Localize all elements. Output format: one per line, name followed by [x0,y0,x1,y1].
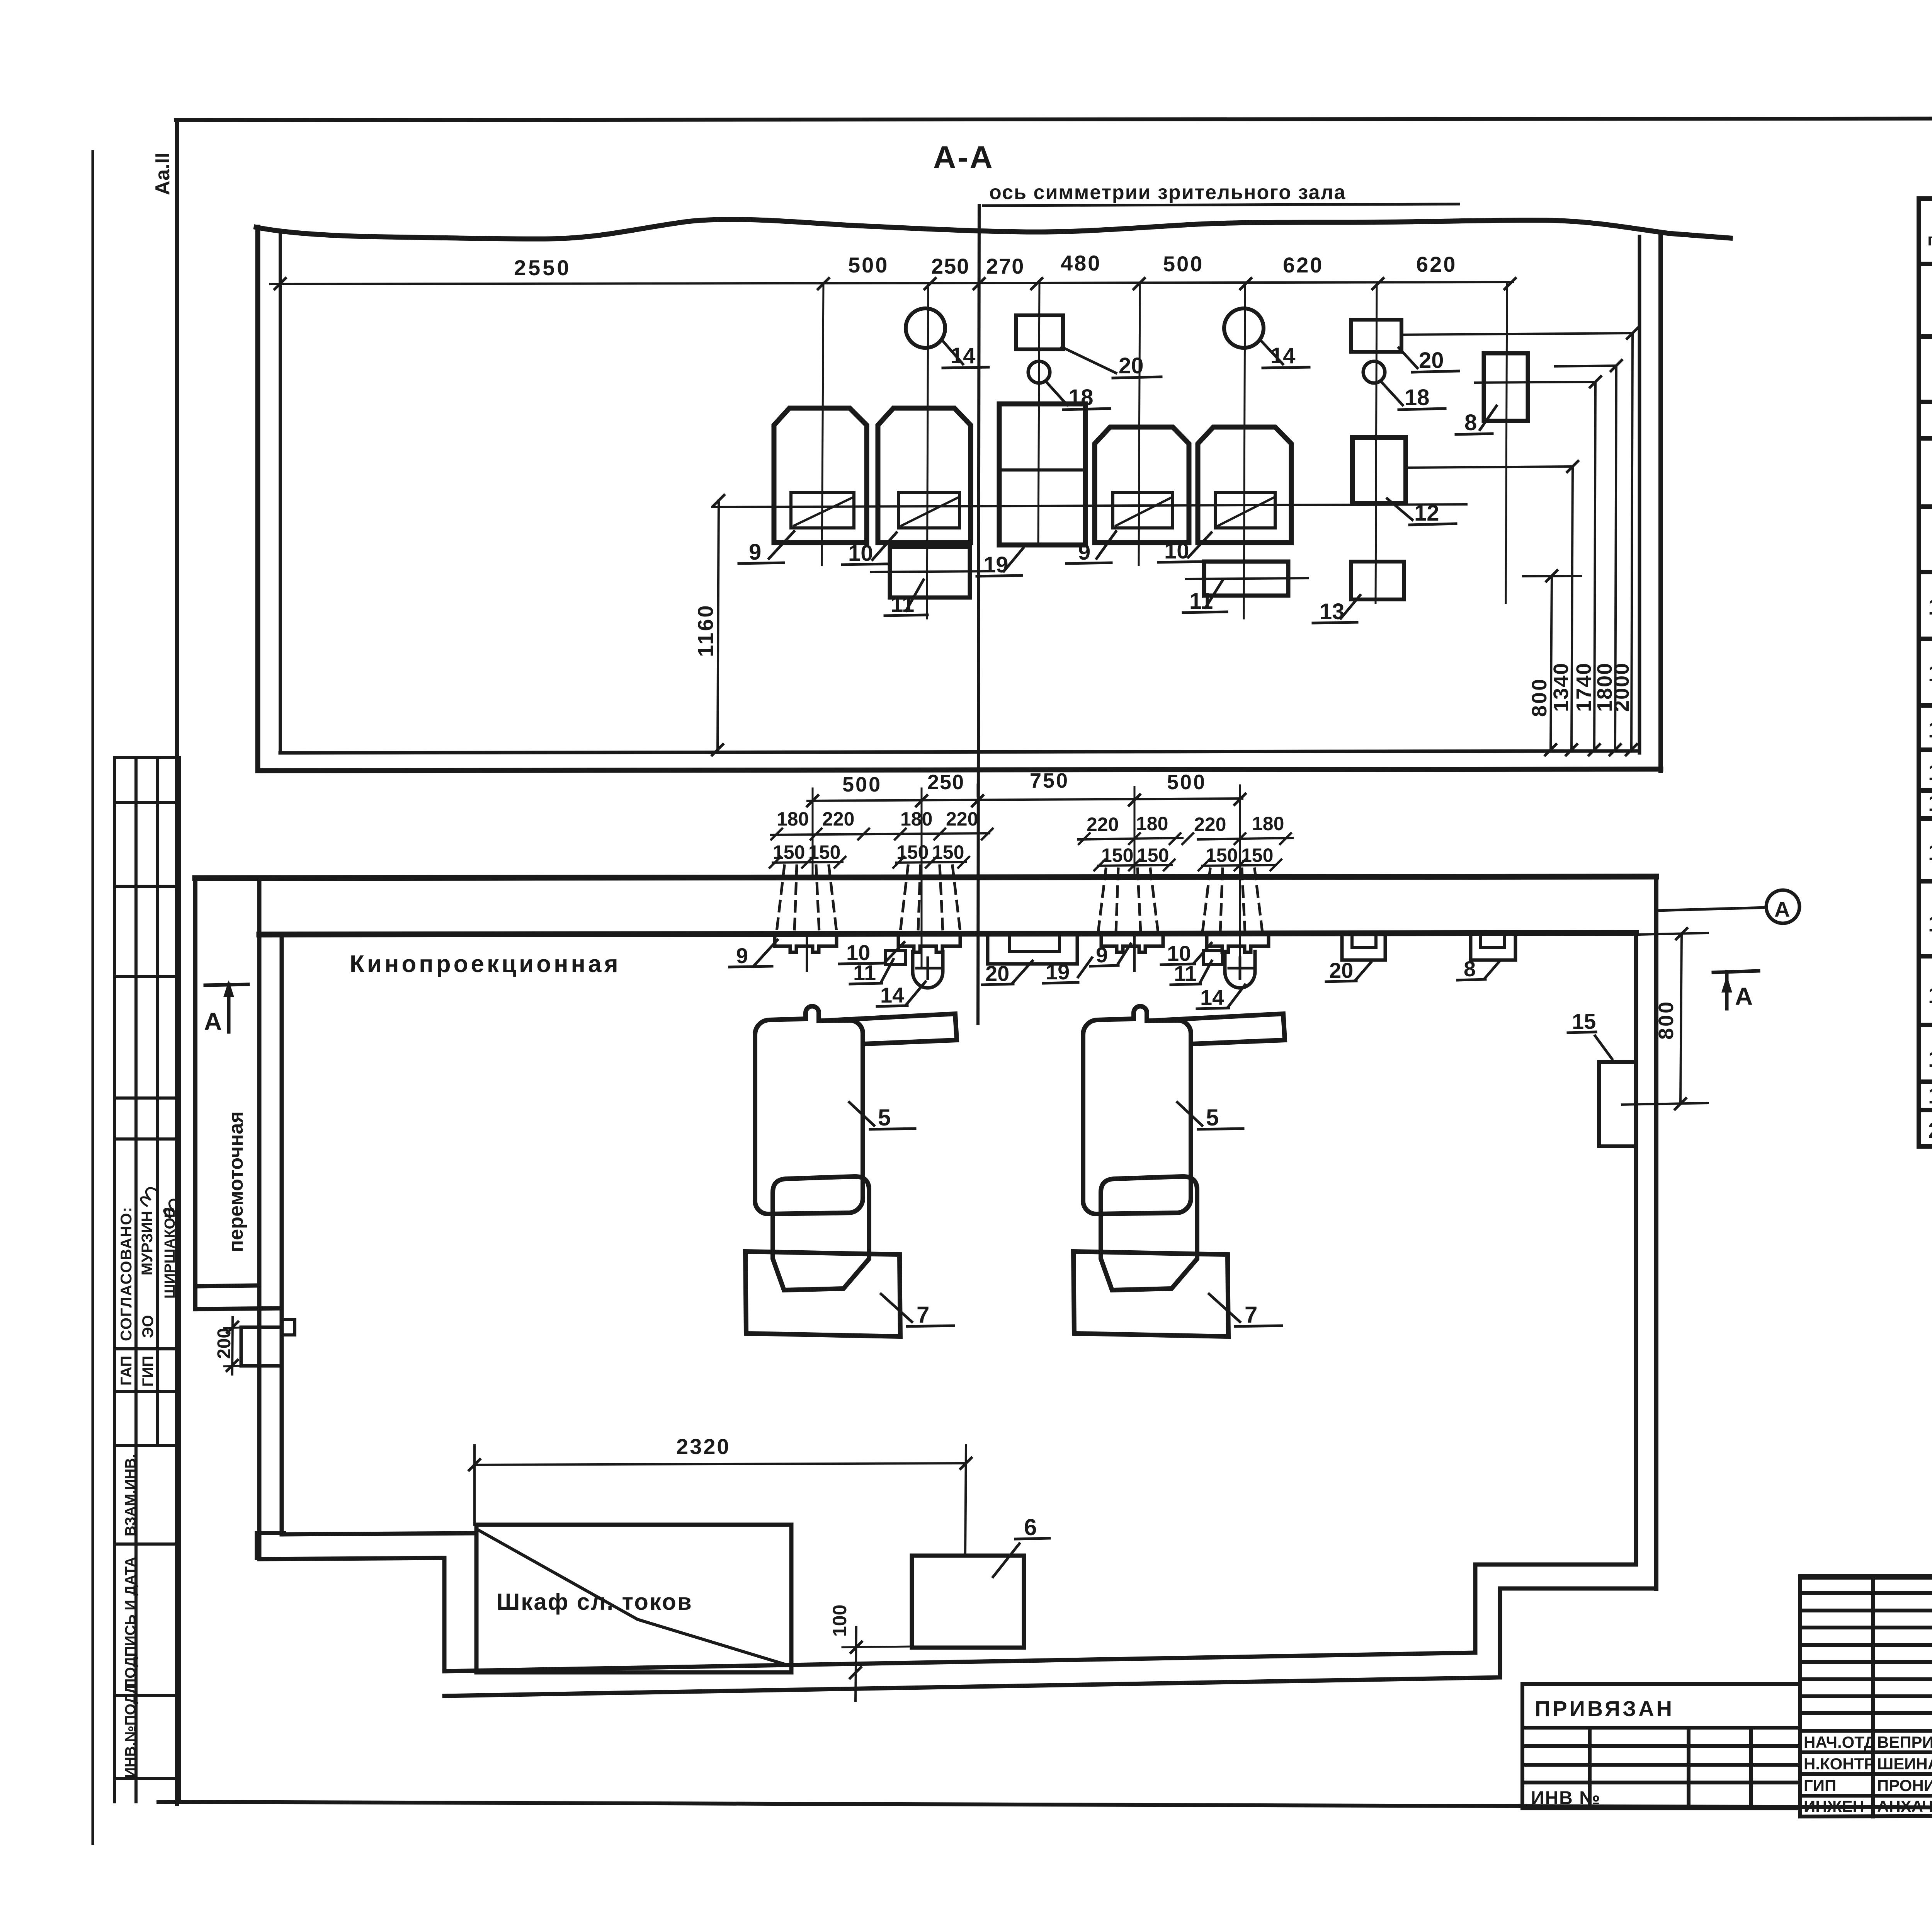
console 11 left centerline [871,571,990,572]
svg-text:ВЗАМ.ИНВ.: ВЗАМ.ИНВ. [122,1454,139,1536]
label 5 (proj2) [1177,1102,1243,1129]
low current cabinet box [476,1525,791,1672]
svg-text:19: 19 [1928,1083,1932,1108]
plan top wall outer [195,877,1656,878]
box 15 [1599,1062,1636,1146]
plan label 19 mid [1043,958,1092,983]
svg-text:220: 220 [946,808,978,830]
svg-text:2550: 2550 [514,255,571,280]
section mark A left: vertical with arrow [227,984,231,1032]
privyazan rows [1522,1744,1800,1748]
svg-text:перемоточная: перемоточная [225,1111,247,1252]
svg-text:250: 250 [931,254,969,278]
svg-text:9: 9 [749,540,761,565]
dashed projection beams window D [1202,869,1262,932]
section box right wall inner [1638,237,1641,753]
dim 200 extension lines [224,1327,255,1328]
svg-text:18: 18 [1928,1047,1932,1072]
svg-text:15: 15 [1928,840,1932,865]
row line r5 [1919,334,1932,339]
projector 1 body [755,1006,863,1214]
svg-text:ЭО: ЭО [139,1315,156,1338]
section box left wall inner [279,230,282,753]
row line r13 [1919,788,1932,793]
svg-text:13: 13 [1928,760,1932,785]
strip top [114,756,180,759]
socket circle 18 right [1363,361,1385,383]
svg-text:1160: 1160 [693,604,718,657]
inner shutter rect 10 left [898,492,959,528]
svg-text:9: 9 [1096,943,1108,967]
dim 800 vertical [1551,576,1552,750]
scan edge line left [92,152,94,1844]
svg-text:150: 150 [932,841,964,863]
frame left [175,120,179,1804]
row3 dim lines [773,862,1276,866]
row1 ticks [807,794,1245,806]
console 11 right plan [1203,951,1223,965]
row line r15 [1919,879,1932,884]
svg-text:270: 270 [986,254,1024,278]
svg-text:19: 19 [983,552,1009,577]
strip row g [114,1390,180,1393]
plan label 8 right [1458,962,1499,980]
dim 2320 guide up at left [473,1445,476,1525]
title block outer [1800,1576,1932,1578]
dashed projection beams window C [1098,869,1158,932]
axis 4 [1244,283,1245,618]
svg-text:14: 14 [1200,985,1224,1010]
cabinet diagonal [479,1531,790,1666]
svg-text:220: 220 [1087,814,1119,835]
shutter diagonal 10 left [901,498,957,526]
signer row lines [1800,1729,1932,1733]
header row line [1919,262,1932,266]
label 18 left [1045,381,1110,410]
strip row h [114,1444,180,1447]
PRIVYAZAN block [1522,1684,1800,1808]
svg-text:А-А: А-А [933,140,994,175]
plan label 10 left [839,942,904,964]
label 5 (proj1) [849,1102,915,1129]
section mark A right: vertical [1725,972,1729,1009]
shutter diagonal 9 right [1116,498,1171,526]
svg-text:Н.КОНТР: Н.КОНТР [1804,1755,1875,1773]
bra circle 14 right [1224,308,1264,348]
privyazan cols [1588,1728,1592,1808]
axis 3 [1139,283,1140,565]
console 11 right centerline [1186,578,1308,579]
svg-text:8: 8 [1464,957,1476,981]
label 7 (proj2) [1209,1294,1282,1326]
svg-text:220: 220 [1194,814,1226,835]
row line r9 [1919,570,1932,574]
svg-text:150: 150 [1137,844,1169,866]
svg-text:11: 11 [1174,961,1197,986]
plan label 20 mid [982,961,1032,985]
speaker 20/19 plan symbol [988,933,1077,964]
console 11 left [890,547,970,598]
plan left outer wall [193,878,197,1309]
svg-text:ШИРШАКОВ: ШИРШАКОВ [162,1207,178,1299]
svg-text:Кинопроекционная: Кинопроекционная [350,951,621,977]
svg-text:150: 150 [896,841,929,863]
svg-text:500: 500 [848,253,889,277]
svg-text:11: 11 [1189,589,1213,614]
dim 800 plan extension bottom / box15 centerline [1622,1103,1708,1105]
label 10 right [1158,533,1211,562]
svg-text:250: 250 [927,771,964,794]
section mark A left: top bar [205,984,248,985]
socket 17 on rewinding wall [241,1327,282,1366]
strip right edge [178,758,181,1802]
svg-text:НАЧ.ОТД: НАЧ.ОТД [1804,1733,1876,1751]
shutter symbol 10 left [898,935,960,952]
projector 1 base 7 [745,1251,900,1336]
svg-text:150: 150 [1101,844,1133,866]
dim 200 vertical [232,1317,233,1374]
svg-text:200: 200 [214,1328,235,1359]
label 9 right [1066,531,1116,564]
svg-text:А: А [1774,897,1790,921]
bra bell 14 left plan [913,952,943,988]
dim 2000 vertical [1631,333,1633,750]
plan label 14 right [1197,985,1245,1009]
shutter diagonal 10 right [1218,498,1273,526]
label 11 right [1183,580,1227,613]
svg-text:10: 10 [848,541,873,566]
bra circle 14 left [906,308,945,348]
label 7 (proj1) [881,1294,954,1326]
projector 2 arm [1150,1014,1285,1044]
row line r11 [1919,703,1932,708]
svg-text:6: 6 [1024,1514,1037,1540]
strip row b [114,885,180,888]
section mark A right: top bar [1713,971,1759,972]
dim ticks [275,278,1515,289]
axis of symmetry vertical line [978,206,979,1023]
rewinding room bottom wall outer [195,1308,282,1309]
svg-text:14: 14 [1928,791,1932,816]
row line r14 [1919,816,1932,821]
svg-text:7: 7 [1245,1302,1257,1328]
axis 1 [822,283,823,565]
label 8 [1456,406,1497,434]
strip row c [114,975,180,978]
svg-text:11: 11 [1928,661,1932,686]
console 11 left plan [886,951,906,965]
row line r7 [1919,436,1932,441]
projector 2 base 7 [1073,1251,1228,1336]
ref line 1340 [1406,466,1573,468]
svg-text:20: 20 [1119,353,1144,378]
strip left edge [113,758,116,1802]
svg-text:180: 180 [900,808,932,830]
svg-text:ИНВ.№ПОДЛ: ИНВ.№ПОДЛ [122,1683,139,1778]
label 20 right [1399,348,1459,372]
inner shutter rect 10 right [1215,492,1275,528]
svg-text:750: 750 [1030,769,1069,792]
svg-text:ГИП: ГИП [1804,1776,1836,1794]
dashed projection beams window B [900,866,960,931]
strip row e [114,1137,180,1141]
central grid col b [1871,1576,1875,1817]
svg-text:Аа.II: Аа.II [151,153,174,195]
rewinding room bottom wall inner [195,1285,259,1286]
axis 19 [1038,283,1039,546]
dim 1340 vertical [1571,466,1573,750]
signer labels [1804,1733,1932,1815]
rewinding room east wall line 1 [257,878,262,1559]
svg-text:20: 20 [1419,348,1444,373]
svg-text:18: 18 [1405,385,1430,410]
svg-text:поз.: поз. [1927,230,1932,249]
row1 guide verticals [813,785,1240,974]
svg-text:180: 180 [777,808,809,830]
svg-text:А: А [1735,982,1753,1010]
device 8 plan symbol [1471,933,1515,960]
title block bottom [1800,1813,1932,1817]
row line r18 [1919,1079,1932,1084]
right step outer left [1498,1588,1502,1677]
console 11 right [1204,562,1288,596]
row line r16 [1919,954,1932,958]
projector 1 arm [822,1014,957,1044]
svg-text:150: 150 [1241,844,1273,866]
svg-text:800: 800 [1528,678,1551,717]
section box floor inner [280,751,1639,753]
projector 2 magazine [1101,1176,1197,1290]
label 15 [1568,1032,1612,1059]
svg-text:8: 8 [1464,410,1477,435]
box 6 [912,1556,1024,1648]
svg-text:15: 15 [1572,1009,1596,1033]
svg-text:9: 9 [736,943,748,968]
underline of axis label [983,204,1459,206]
corridor jog bottom [259,1558,444,1559]
arrow ticks on height dims top [1546,328,1638,581]
svg-text:ШЕИНА: ШЕИНА [1877,1755,1932,1773]
svg-text:500: 500 [1163,252,1204,276]
row line r8 [1919,504,1932,509]
svg-text:ИНЖЕН: ИНЖЕН [1804,1797,1864,1815]
svg-text:13: 13 [1320,599,1345,624]
svg-text:14: 14 [880,983,904,1007]
svg-text:ИНВ №: ИНВ № [1531,1788,1601,1808]
row line r17 [1919,1023,1932,1027]
svg-text:2000: 2000 [1610,662,1633,712]
label 9 left [739,531,794,564]
label 18 right [1380,381,1445,410]
central grid thin rows [1800,1591,1932,1595]
shutter symbol 9 right [1101,935,1163,952]
dim 1800 vertical [1615,366,1616,750]
axis 12 [1376,283,1377,603]
svg-text:20: 20 [1928,1118,1932,1143]
svg-text:10: 10 [1164,538,1189,564]
plan label 11 left [850,959,893,984]
row2 ticks [771,829,1291,844]
label 14 left [942,340,988,368]
plan dim row1 line [808,798,1242,801]
label 10 left [842,533,896,565]
projector 2 body [1083,1006,1191,1214]
svg-text:ГАП: ГАП [118,1356,135,1386]
speaker box 20 right [1351,320,1401,352]
wavy ceiling break line [256,220,1730,239]
dim 2320 guide down at right to box 6 [965,1445,966,1556]
strip row i [114,1542,180,1546]
inner shutter rect 9 right [1113,492,1173,528]
axis 2 [927,283,928,618]
cabinet box 19 [999,404,1085,545]
dim 800 plan vertical [1680,934,1682,1104]
svg-text:ПРИВЯЗАН: ПРИВЯЗАН [1535,1696,1674,1721]
strip row f (soglasovano bottom) [114,1347,180,1350]
svg-text:АНХАЧЕВА: АНХАЧЕВА [1877,1797,1932,1815]
dim 100 extension to box6 [842,1646,912,1647]
svg-text:14: 14 [951,343,976,368]
svg-text:ПОДПИСЬ И ДАТА: ПОДПИСЬ И ДАТА [122,1557,139,1689]
strip row j [114,1694,180,1697]
strip divider 1 [134,758,138,1802]
plan bottom wall outer [444,1677,1500,1696]
dim 100 vertical [855,1627,856,1701]
svg-text:ПРОНИТЕНН: ПРОНИТЕНН [1877,1776,1932,1794]
signature squiggles rotated [141,1188,180,1217]
svg-text:10: 10 [1928,594,1932,620]
svg-text:11: 11 [853,960,876,985]
label 12 [1387,499,1456,525]
wall junction bump [257,1531,284,1535]
shutter diagonal 9 left [794,498,852,526]
svg-text:12: 12 [1928,717,1932,742]
svg-text:12: 12 [1414,501,1439,526]
horizontal dimension line y=733 [270,282,1513,284]
row line r19 [1919,1108,1932,1112]
dim 800 plan extension top [1638,933,1708,935]
rewinding room east wall line 2 [280,935,284,1534]
svg-text:ГИП: ГИП [139,1356,156,1387]
svg-text:620: 620 [1416,252,1457,276]
svg-text:220: 220 [822,808,854,830]
svg-text:150: 150 [808,841,840,863]
svg-text:ось симметрии зрительного зала: ось симметрии зрительного зала [989,181,1346,204]
central grid left edge [1798,1576,1802,1817]
svg-text:ВЕПРИЖСКИЙ: ВЕПРИЖСКИЙ [1877,1733,1932,1751]
plan top wall inner [259,933,1636,935]
svg-text:20: 20 [1329,958,1353,982]
privyazan label row bottom [1522,1726,1800,1730]
frame top [176,118,1932,120]
dim 2320 line [474,1463,966,1465]
main horizontal centerline of windows [712,504,1466,507]
inner shutter rect 9 left [791,492,854,528]
svg-text:1340: 1340 [1549,662,1573,712]
corridor jog down left [442,1558,447,1671]
window C center tick [1133,935,1136,971]
section box floor outer [258,769,1661,771]
strip row d [114,1096,180,1100]
svg-text:800: 800 [1655,1000,1678,1040]
strip divider 2 [156,758,159,1445]
table outer box [1919,199,1932,1146]
row3 ticks [770,857,1281,870]
dim 1740 vertical [1594,382,1595,750]
svg-text:480: 480 [1061,251,1101,275]
svg-text:11: 11 [891,592,914,617]
svg-text:5: 5 [1206,1105,1219,1130]
window box 9 right (chamfered) [1095,427,1189,543]
bra bell 14 right plan [1225,952,1255,988]
svg-text:14: 14 [1270,343,1296,368]
label 6 [993,1538,1049,1577]
plan label 9 left [730,940,777,967]
svg-text:500: 500 [842,773,882,796]
plan label 9 right [1090,944,1131,966]
row line r10 [1919,637,1932,641]
svg-text:180: 180 [1252,813,1284,834]
box 19 mid line [999,468,1085,472]
svg-text:19: 19 [1046,960,1070,984]
svg-text:150: 150 [1206,844,1238,866]
window A center tick [806,935,808,971]
plan label 10 right [1161,943,1211,965]
1160 end ticks [712,495,724,755]
right step inner left [1473,1565,1478,1653]
axis 8 [1506,283,1507,603]
grid circle A [1766,890,1799,923]
label 14 right [1260,340,1309,368]
arrow ticks on height dims bottom [1545,744,1637,755]
svg-text:100: 100 [829,1605,850,1637]
svg-text:7: 7 [917,1302,929,1328]
svg-text:180: 180 [1136,813,1168,834]
right step outer top [1500,1587,1656,1591]
svg-text:17: 17 [1928,983,1932,1008]
ref line 1740 [1475,382,1595,383]
svg-text:Шкаф сл. токов: Шкаф сл. токов [497,1589,693,1615]
ref line 800 [1523,576,1581,576]
speaker 20 right plan symbol [1342,933,1385,960]
svg-text:СОГЛАСОВАНО:: СОГЛАСОВАНО: [118,1206,135,1341]
speaker box 20 left [1016,315,1063,349]
shutter symbol 9 left [775,935,837,952]
row2 dim lines [771,833,1293,839]
dimension 1160 vertical [718,501,719,750]
box 12 [1352,438,1406,503]
section box left wall outer [255,227,260,771]
svg-text:500: 500 [1167,771,1206,794]
window box 10 right (chamfered) [1198,427,1291,543]
svg-text:620: 620 [1283,253,1323,277]
frame bottom [158,1802,1932,1810]
svg-text:А: А [204,1008,222,1035]
corridor jog top [282,1533,474,1534]
svg-text:2320: 2320 [676,1434,731,1459]
strip bottom [114,1777,180,1780]
box 8 [1484,353,1528,421]
svg-text:МУРЗИН: МУРЗИН [139,1211,156,1275]
row line r12 [1919,747,1932,752]
leader to grid circle A [1656,907,1767,911]
label 20 left [1062,347,1161,378]
strip row a [114,801,180,804]
row line r6 [1919,400,1932,404]
plan label 20 right [1326,962,1371,982]
label 19 [977,548,1023,576]
label 11 left [885,580,927,616]
